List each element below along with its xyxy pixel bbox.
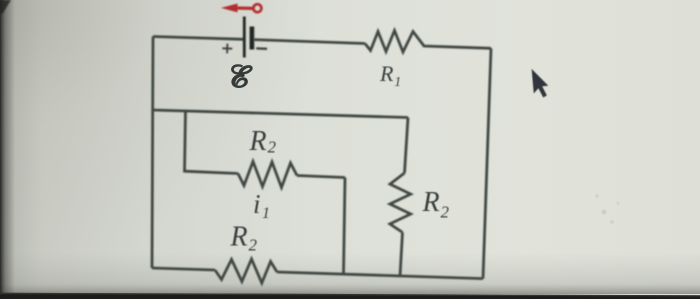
- wire: left outer wire: [152, 37, 153, 269]
- wire: top-left segment from left wire to battery + plate: [153, 37, 244, 40]
- wire: inner top horizontal: [152, 110, 408, 118]
- wire: middle branch left segment: [185, 171, 239, 173]
- minus sign: [256, 47, 267, 50]
- wire: inner-left vertical: [185, 111, 186, 173]
- bottom shadow above bar: [0, 252, 700, 294]
- svg-text:R: R: [379, 61, 394, 86]
- wire: right branch vertical top: [405, 118, 409, 174]
- svg-text:i: i: [253, 189, 261, 219]
- mouse cursor: [532, 68, 550, 99]
- left dark photo edge: [0, 0, 15, 299]
- smudges on screen: [596, 195, 620, 224]
- svg-text:1: 1: [394, 75, 401, 90]
- svg-text:2: 2: [268, 138, 277, 157]
- battery long plate (+): [243, 17, 246, 58]
- wire: middle-right vertical down to bottom: [344, 178, 346, 275]
- plus sign: [222, 44, 232, 54]
- svg-text:2: 2: [441, 203, 450, 222]
- svg-text:R: R: [230, 222, 248, 253]
- battery EMF source: [222, 17, 267, 58]
- resistor R1 zigzag: [365, 31, 491, 53]
- red annotation arrow with circle: [221, 4, 261, 13]
- labels: [230, 61, 450, 255]
- circuit drawing: [152, 31, 491, 284]
- arrow head: [221, 4, 238, 13]
- svg-text:1: 1: [262, 205, 270, 222]
- resistor R2 middle zigzag: [238, 162, 297, 188]
- wire: bottom-left segment: [152, 268, 215, 270]
- bottom black bar: [0, 293, 700, 299]
- wire: top-right segment from battery - plate to R1: [254, 40, 365, 44]
- wire: right branch vertical bottom: [400, 232, 403, 276]
- wire: right outer wire: [483, 48, 491, 278]
- wire: bottom-right segment: [277, 272, 483, 279]
- top-left darker shading: [0, 0, 420, 299]
- open circle terminal: [253, 4, 261, 12]
- top-left corner dark blob: [0, 0, 11, 14]
- battery short plate (-): [250, 27, 255, 50]
- wire: middle branch right segment: [297, 176, 345, 178]
- svg-text:R: R: [422, 187, 440, 218]
- arrow shaft: [237, 6, 253, 10]
- resistor R2 right vertical zigzag: [390, 173, 411, 232]
- script E (EMF) symbol: [232, 65, 252, 87]
- resistor R2 bottom zigzag: [215, 259, 277, 283]
- svg-text:2: 2: [249, 236, 258, 255]
- svg-text:R: R: [249, 126, 267, 157]
